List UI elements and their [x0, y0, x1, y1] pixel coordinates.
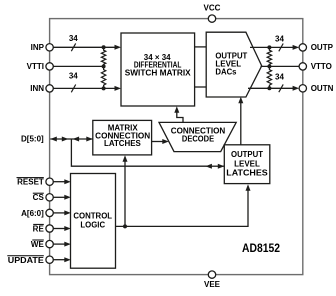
wire D[5:0] bidirectional bus [50, 137, 93, 142]
label INP [31, 43, 45, 52]
label 34 (OUTP bus) [275, 34, 284, 43]
block: matrix connection latches [93, 120, 152, 154]
wire connection decode to switch matrix (jog with up arrow) [174, 106, 183, 122]
wire INP to switch matrix [53, 45, 121, 50]
svg-text:DACs: DACs [215, 68, 237, 77]
label OUTN [311, 84, 334, 93]
svg-text:CS: CS [33, 193, 45, 202]
svg-text:UPDATE: UPDATE [8, 256, 45, 265]
label VTTI [27, 62, 44, 71]
svg-text:34: 34 [69, 72, 78, 81]
svg-text:D[5:0]: D[5:0] [21, 134, 44, 143]
svg-text:VCC: VCC [204, 4, 221, 13]
label 34 (OUTN bus) [275, 73, 284, 82]
svg-text:INN: INN [30, 84, 44, 93]
block: 34x34 differential switch matrix U-matrix [121, 33, 195, 106]
pin RE [46, 225, 53, 232]
label CS (active low) [33, 193, 45, 202]
wire CS to control logic [53, 195, 71, 200]
svg-text:RE: RE [33, 224, 45, 233]
svg-text:34: 34 [69, 34, 78, 43]
svg-text:34: 34 [275, 73, 284, 82]
bus slash OUTP [279, 44, 283, 52]
label UPDATE (active low) [7, 256, 44, 265]
pin RESET [46, 178, 53, 185]
pin INN [46, 85, 53, 92]
bus slash OUTN [279, 84, 283, 92]
svg-text:LATCHES: LATCHES [104, 139, 141, 148]
wire WE to control logic [53, 242, 71, 247]
svg-text:LEVEL: LEVEL [234, 159, 260, 168]
label VTTO [311, 62, 332, 71]
wire RE to control logic [53, 226, 71, 231]
wire matrix connection latches to connection decode [152, 139, 169, 144]
wire DACs to OUTP [250, 45, 299, 50]
label VEE [204, 280, 221, 289]
wire DACs vertex to VTTO [261, 65, 300, 67]
pin VTTI [46, 63, 53, 70]
junction node INP [102, 45, 106, 49]
pin A[6:0] [46, 209, 53, 216]
wire output level latches to DACs (up arrow) [238, 97, 243, 145]
block: control logic [71, 174, 116, 269]
pin OUTP [299, 44, 306, 51]
svg-text:DECODE: DECODE [182, 134, 215, 143]
resistor (VTTI-INN termination) [101, 66, 105, 88]
junction node INN [102, 86, 106, 90]
bus slash INN [71, 85, 75, 93]
resistor (VTTO-OUTN termination) [267, 66, 271, 88]
label INN [30, 84, 44, 93]
svg-text:VTTI: VTTI [27, 62, 44, 71]
block: output level DACs [206, 32, 262, 97]
wire INN to switch matrix [53, 86, 121, 91]
pin VCC [208, 15, 215, 22]
wire DACs to OUTN [248, 86, 299, 91]
svg-text:OUTN: OUTN [311, 84, 334, 93]
pin UPDATE [46, 256, 53, 263]
wire D bus to output level latches (L shape) [71, 139, 224, 169]
svg-text:CONTROL: CONTROL [73, 211, 112, 220]
bus slash INP [71, 43, 75, 51]
label A[6:0] [21, 209, 44, 218]
wire UPDATE to control logic [53, 257, 71, 262]
wire switch matrix to DACs (top) [195, 46, 207, 48]
label AD8152 [242, 243, 280, 255]
svg-text:AD8152: AD8152 [242, 243, 280, 255]
junction node OUTP [267, 45, 271, 49]
svg-text:INP: INP [31, 43, 45, 52]
svg-text:LATCHES: LATCHES [226, 169, 268, 178]
junction node VTTO [267, 64, 271, 68]
label 34 (INP bus) [69, 34, 78, 43]
junction node OUTN [267, 86, 271, 90]
label D[5:0] [21, 134, 44, 143]
svg-text:34: 34 [275, 34, 284, 43]
resistor (OUTP-VTTO termination) [267, 47, 271, 66]
label RESET (active low) [17, 178, 44, 187]
block: output level latches [224, 145, 269, 184]
svg-text:SWITCH MATRIX: SWITCH MATRIX [125, 69, 192, 78]
pin WE [46, 240, 53, 247]
svg-text:OUTPUT: OUTPUT [231, 150, 263, 159]
svg-text:VTTO: VTTO [311, 62, 332, 71]
wire VTTI to resistor node [53, 65, 103, 67]
label OUTP [311, 43, 334, 52]
pin CS [46, 194, 53, 201]
pin VTTO [299, 63, 306, 70]
svg-text:VEE: VEE [204, 280, 221, 289]
label 34 (INN bus) [69, 72, 78, 81]
svg-text:A[6:0]: A[6:0] [21, 209, 44, 218]
label WE (active low) [31, 240, 45, 249]
pin OUTN [299, 85, 306, 92]
resistor (INP-VTTI termination) [101, 47, 105, 66]
svg-text:LOGIC: LOGIC [80, 221, 105, 230]
label RE (active low) [33, 224, 45, 233]
pin VEE [208, 271, 215, 278]
svg-text:OUTP: OUTP [311, 43, 334, 52]
chip boundary (outer border) [50, 19, 303, 275]
junction node VTTI [102, 64, 106, 68]
block: connection decode (trapezoid) [159, 122, 236, 151]
junction node control bus [123, 224, 127, 228]
label VCC [204, 4, 221, 13]
wire switch matrix to DACs (bottom) [195, 86, 207, 88]
wire branch up to matrix connection latches [123, 155, 128, 226]
wire control logic to latches (right then up, with branch) [116, 184, 251, 226]
pin INP [46, 44, 53, 51]
wire A[6:0] to control logic [53, 210, 71, 215]
svg-text:RESET: RESET [17, 178, 44, 187]
wire RESET to control logic [53, 179, 71, 184]
svg-text:WE: WE [31, 240, 45, 249]
